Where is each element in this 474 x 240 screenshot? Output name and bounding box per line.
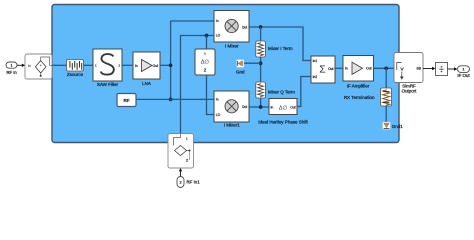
wire sum to IF Amplifier: [335, 67, 343, 69]
wire RF In1 to Inport 2 (with arrowhead): [179, 168, 182, 177]
svg-text:In: In: [216, 98, 219, 102]
wire Hartley out to sum In2: [297, 77, 311, 107]
svg-text:Mixer Q Term: Mixer Q Term: [268, 90, 295, 95]
ground Gnd: [236, 60, 245, 75]
svg-text:1: 1: [11, 64, 13, 68]
svg-text:RF In: RF In: [6, 70, 17, 75]
block SimRF Inport 1 (controlled source): [25, 54, 52, 79]
node Q term junction: [259, 105, 263, 109]
gain block (divide): [436, 63, 448, 76]
node LO junction: [205, 34, 209, 38]
svg-text:Gnd1: Gnd1: [392, 124, 404, 129]
resistor Mixer Q Term: [256, 82, 295, 98]
svg-text:In1: In1: [313, 59, 318, 63]
svg-text:Σ: Σ: [319, 64, 326, 76]
wire Zsource to SAW Filter: [84, 64, 94, 66]
block Ideal Hartley Phase Shift: [258, 99, 308, 125]
svg-text:In: In: [28, 64, 31, 68]
wire junction down to RX Termination: [385, 68, 387, 88]
wire Configuration / riser to Q Mixer In: [136, 98, 214, 100]
svg-text:RX Termination: RX Termination: [344, 95, 375, 100]
wire LNA out to RF junction: [160, 64, 171, 66]
svg-text:IF Out: IF Out: [457, 73, 470, 78]
svg-text:SAW Filter: SAW Filter: [97, 82, 119, 87]
resistor Zsource: [67, 60, 84, 78]
amplifier LNA: [133, 52, 160, 86]
block SAW Filter: [93, 49, 122, 87]
ground Gnd1: [383, 122, 404, 130]
wire RX Termination to Gnd1: [385, 106, 387, 122]
wire phase shift to Q Mixer LO: [207, 75, 215, 115]
wire SimRF Outport to gain (with arrowhead): [423, 67, 435, 70]
svg-text:Mixer I Term: Mixer I Term: [268, 46, 293, 51]
inport RF In1 (oval 2): [177, 177, 200, 188]
wire Mixer I Term to Mixer Q Term: [260, 57, 262, 82]
sum block: [311, 56, 335, 83]
svg-text:LO: LO: [216, 113, 221, 117]
node RX termination junction: [384, 66, 388, 70]
mixer I Mixer: [214, 11, 249, 49]
svg-text:+: +: [40, 63, 42, 67]
inport RF In (oval 1): [6, 62, 17, 75]
wire I Mixer Out to sum In1: [249, 27, 311, 61]
svg-text:Out: Out: [242, 25, 247, 29]
svg-text:IF Amplifier: IF Amplifier: [347, 84, 370, 89]
svg-text:LO: LO: [216, 34, 221, 38]
svg-text:I Mixer1: I Mixer1: [224, 123, 241, 128]
svg-text:Out: Out: [328, 67, 333, 71]
resistor RX Termination: [344, 88, 392, 106]
svg-text:2: 2: [186, 159, 188, 163]
wire LO riser from RF In1 source up to LO row: [181, 36, 215, 134]
outport IF Out (oval 1): [457, 66, 470, 78]
amplifier IF Amplifier: [343, 56, 374, 89]
wire LO junction to phase shift block: [206, 36, 208, 50]
svg-text:Gnd: Gnd: [236, 70, 245, 75]
svg-text:In: In: [345, 67, 348, 71]
wire Q Mixer Out to Hartley phase shift: [249, 106, 269, 108]
wire Inport to Zsource: [52, 64, 67, 66]
block Configuration: [117, 94, 136, 107]
svg-text:Out: Out: [366, 67, 371, 71]
wire Mixer Q Term down to Q out wire: [260, 98, 262, 107]
svg-text:2: 2: [179, 181, 181, 185]
mixer I Mixer1 (Q path): [214, 91, 249, 128]
resistor Mixer I Term: [256, 41, 293, 57]
wire RF In to Inport block (with arrowhead): [17, 64, 25, 67]
wire junction to Mixer I Term: [260, 27, 262, 41]
svg-text:Δ∅: Δ∅: [279, 105, 287, 111]
svg-text:In2: In2: [313, 75, 318, 79]
svg-text:In: In: [135, 64, 138, 68]
node I term junction: [259, 25, 263, 29]
svg-text:Outport: Outport: [402, 89, 417, 94]
node ground junction: [259, 61, 263, 65]
svg-text:I Mixer: I Mixer: [225, 44, 239, 49]
block SimRF Inport 2 (LO source, rotated): [168, 134, 194, 169]
wire SAW Filter to LNA: [122, 64, 133, 66]
wire Gnd to ground junction: [244, 62, 261, 64]
svg-text:RF In1: RF In1: [187, 179, 201, 184]
wire IF Amplifier to SimRF Outport: [374, 67, 395, 69]
svg-text:Out: Out: [153, 64, 158, 68]
svg-text:RF: RF: [123, 98, 129, 103]
svg-text:Zsource: Zsource: [67, 72, 84, 77]
svg-text:Δ∅: Δ∅: [201, 59, 210, 66]
svg-text:In: In: [271, 105, 274, 109]
svg-text:Ideal Hartley Phase Shift: Ideal Hartley Phase Shift: [258, 119, 308, 124]
svg-text:Out: Out: [242, 105, 247, 109]
phase shift block (LO 90 deg): [195, 49, 215, 75]
node RF split (vertical riser): [169, 21, 173, 101]
block SimRF Outport: [394, 53, 423, 94]
svg-text:In: In: [216, 19, 219, 23]
wire gain to IF Out (with arrowhead): [448, 67, 458, 70]
wire riser to I Mixer In: [171, 20, 214, 22]
subsystem area (blue SimRF region): [52, 5, 399, 143]
svg-text:LNA: LNA: [142, 81, 151, 86]
svg-text:Out: Out: [290, 105, 295, 109]
